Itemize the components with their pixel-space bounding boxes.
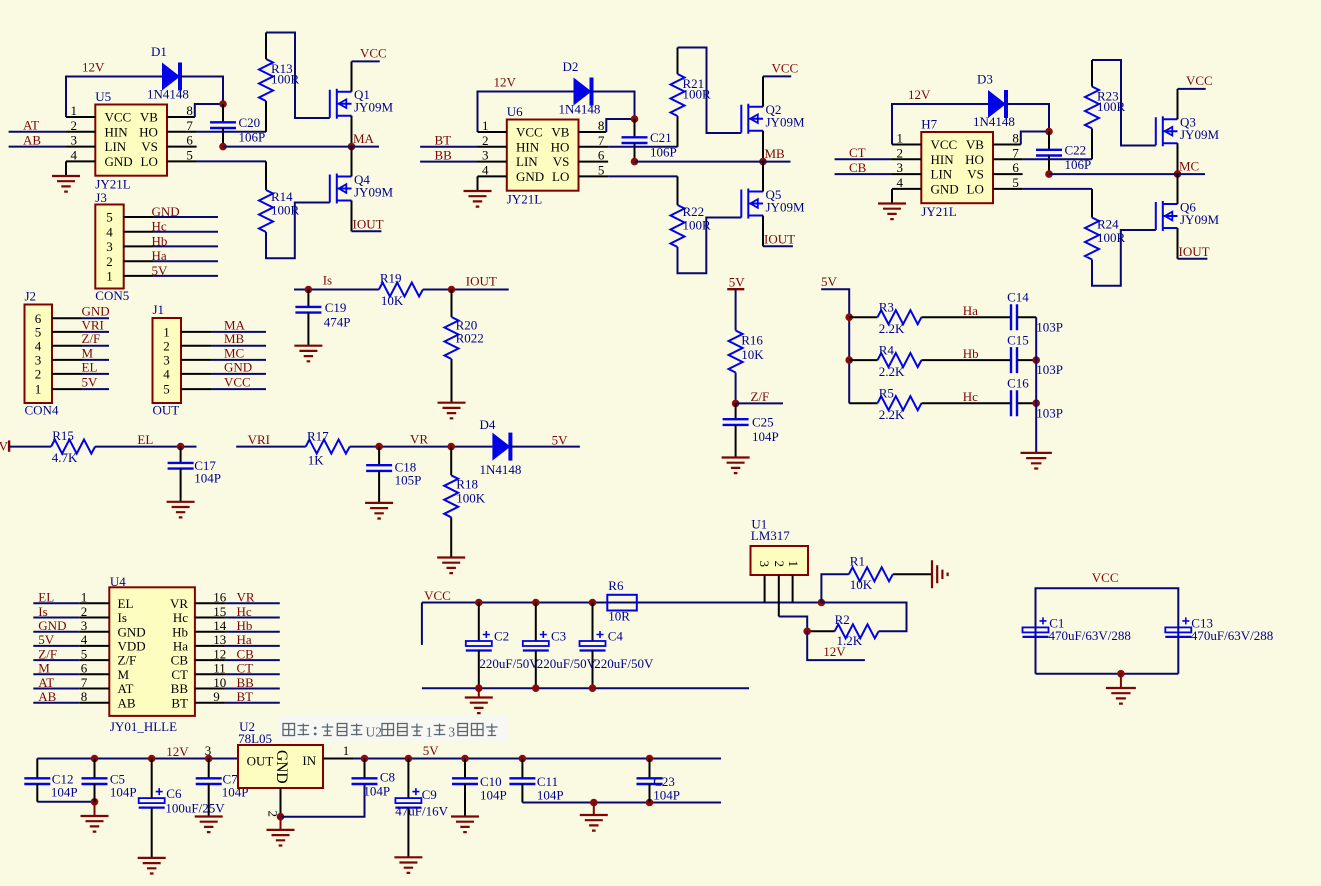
svg-text:JY09M: JY09M [1180,212,1219,227]
svg-text:GND: GND [38,618,66,633]
svg-text:220uF/50V: 220uF/50V [537,656,597,671]
svg-text:MA: MA [353,131,375,146]
wire HO to R21 [608,146,677,148]
svg-text:1: 1 [343,743,350,758]
gate driver U6 JY21L [507,104,579,207]
capacitor C5 104P [82,759,137,802]
svg-text:Z/F: Z/F [82,331,101,346]
svg-text:VDD: VDD [118,639,146,654]
svg-text:Hc: Hc [237,604,252,619]
wire source of Q1 to node MA [351,116,353,147]
junction [475,684,483,692]
svg-text:HO: HO [139,124,158,139]
power port 5V above R16 [727,288,744,290]
capacitor C13 470uF/63V/288 [1165,615,1273,643]
svg-text:5: 5 [106,210,113,225]
svg-text:GND: GND [516,169,544,184]
capacitor C25 104P [723,403,779,457]
svg-text:VCC: VCC [1186,73,1213,88]
wire 12V net of U6 [478,92,574,133]
wire [735,289,737,330]
junction [845,313,853,321]
svg-text:C8: C8 [380,770,395,785]
svg-text:MC: MC [224,345,244,360]
wire VB to junction [195,104,223,117]
junction [219,100,227,108]
wire VCC from J1 [211,388,266,390]
junction [91,755,99,763]
svg-text:5V: 5V [82,375,99,390]
svg-text:C3: C3 [551,629,566,644]
svg-text:VR: VR [170,596,188,611]
svg-text:HO: HO [551,139,570,154]
ground [1021,453,1052,469]
wire Hc from J3 [154,231,218,233]
svg-text:JY21L: JY21L [507,192,542,207]
svg-text:IOUT: IOUT [1179,244,1210,259]
svg-text:CB: CB [237,646,255,661]
svg-text:IOUT: IOUT [764,232,795,247]
svg-text:U6: U6 [507,104,523,119]
resistor R15 4.7K [51,428,95,465]
svg-text:Hc: Hc [173,610,188,625]
svg-text:6: 6 [598,148,605,163]
wire [1017,402,1036,404]
svg-text:GND: GND [105,154,133,169]
wire Z/F from J2 [82,345,109,347]
capacitor C2 220uF/50V [466,603,509,689]
ground [478,688,480,697]
resistor R4 2.2K [878,342,922,379]
junction [589,599,597,607]
wire MC from J1 [211,359,266,361]
svg-text:Ha: Ha [237,632,252,647]
wire GND to U4 [33,631,79,633]
resistor R19 10K [379,270,423,308]
svg-text:7: 7 [598,133,605,148]
pins of U2 [281,759,354,817]
wire MA from J1 [211,331,266,333]
transistor Q6 JY09M [1156,200,1220,232]
junction [405,755,413,763]
svg-text:Z/F: Z/F [118,653,137,668]
svg-text:MB: MB [224,331,245,346]
resistor R24 100R [1085,189,1126,260]
svg-text:VB: VB [966,137,984,152]
junction [532,684,540,692]
capacitor C20 106P [210,104,265,147]
connector J3 CON5 [95,190,129,303]
ground [593,803,595,816]
svg-text:BB: BB [237,675,255,690]
svg-text:3: 3 [71,133,78,148]
junction [205,755,213,763]
ground at U5 pin 4 [65,161,67,176]
svg-text:VCC: VCC [105,110,132,125]
svg-text:CB: CB [849,160,867,175]
junction [590,799,598,807]
svg-text:CT: CT [849,145,866,160]
pins of J1 [181,332,211,389]
wire CB from U4 [225,659,280,661]
resistor R3 2.2K [878,300,922,337]
svg-text:5V: 5V [423,743,440,758]
svg-text:2: 2 [772,561,787,568]
svg-text:VCC: VCC [931,137,958,152]
svg-text:R022: R022 [456,331,484,346]
svg-text:4: 4 [482,162,489,177]
wire R1 to ground [893,573,932,575]
pins of H7 [892,145,1023,189]
pins of U6 [478,132,609,176]
resistor R6 10R [607,578,637,624]
wire HO to R13 [197,131,266,133]
connector J1 OUT [153,302,182,418]
wire Ha from U4 [225,645,280,647]
svg-text:104P: 104P [537,788,564,803]
wire EL from J2 [82,373,109,375]
wire VRI from J2 [82,331,109,333]
junction [1045,128,1053,136]
svg-text:J2: J2 [25,289,37,304]
svg-text:M: M [118,667,130,682]
svg-text:1N4148: 1N4148 [973,114,1015,129]
svg-text:D3: D3 [977,72,993,87]
wire drain of Q1 to VCC [351,61,353,91]
wire MB output [635,161,791,163]
svg-text:VCC: VCC [424,588,451,603]
junction [589,684,597,692]
wire GND from J2 [82,317,109,319]
svg-text:3: 3 [897,160,904,175]
wire drain of Q3 to VCC [1177,89,1179,119]
svg-text:HIN: HIN [931,152,955,167]
capacitor C11 104P [509,759,563,803]
svg-text:EL: EL [118,596,134,611]
ground [167,502,195,518]
svg-text:5: 5 [1012,175,1019,190]
svg-text:8: 8 [186,103,193,118]
svg-text:AT: AT [118,681,134,696]
junction [845,356,853,364]
svg-text:VS: VS [967,167,984,182]
pin numbers of U5 [71,103,194,162]
resistor R22 100R [671,176,712,247]
svg-text:MB: MB [765,146,786,161]
svg-text:VCC: VCC [224,375,251,390]
svg-text:EL: EL [38,590,54,605]
svg-text:GND: GND [273,750,290,784]
svg-text:2: 2 [163,338,170,353]
wire EL to U4 [33,602,79,604]
svg-text:12V: 12V [908,87,931,102]
capacitor C9 47uF/16V [395,759,448,858]
svg-text:3: 3 [106,239,113,254]
svg-text:R5: R5 [879,386,894,401]
ground [437,558,465,574]
ground [722,458,750,474]
svg-text:LO: LO [141,154,158,169]
capacitor C14 103P [1007,290,1063,335]
wire 5V from J3 [154,275,218,277]
junction [1032,356,1040,364]
resistor R18 100K [444,447,486,558]
svg-text:6: 6 [186,133,193,148]
wire VCC loop [1036,588,1179,673]
svg-text:Is: Is [118,610,127,625]
wire ground bus [522,802,721,804]
svg-text:7: 7 [1012,145,1019,160]
wire U2 GND to C8 [281,784,365,817]
wire Ha from J3 [154,260,218,262]
svg-text:D1: D1 [151,44,167,59]
wire source of Q3 to node MC [1177,143,1179,174]
ground [195,817,223,833]
svg-text:R15: R15 [52,428,74,443]
svg-text:7: 7 [186,118,193,133]
svg-text:8: 8 [598,118,605,133]
capacitor C12 104P [24,759,77,802]
svg-text:1: 1 [106,269,113,284]
svg-text:Hb: Hb [152,233,168,248]
svg-text:GND: GND [931,182,959,197]
svg-text:5V: 5V [729,275,746,290]
svg-text:10R: 10R [608,609,630,624]
svg-text:GND: GND [224,359,252,374]
wire node EL [95,446,196,448]
svg-text:Hb: Hb [237,618,253,633]
wire node Hb [922,359,1012,361]
capacitor C17 104P [168,447,221,502]
svg-text:OUT: OUT [247,754,274,769]
svg-text:JY21L: JY21L [921,204,956,219]
svg-text:VRI: VRI [248,432,270,447]
wire to 12V [807,631,865,660]
svg-text:VR: VR [237,590,255,605]
svg-text:AB: AB [38,689,56,704]
wire LO to R24 [1023,188,1092,190]
svg-text:AB: AB [118,695,136,710]
ground [1120,674,1122,688]
wire R22 loop to gate of Q5 [678,218,742,274]
svg-text:4: 4 [35,338,42,353]
capacitor C22 106P [1036,132,1091,175]
svg-text:EL: EL [82,359,98,374]
svg-text:1: 1 [482,118,489,133]
svg-text:HIN: HIN [516,139,540,154]
transistor Q1 JY09M [330,87,394,119]
diode D1 [147,44,189,102]
svg-text:VS: VS [553,154,570,169]
svg-text:3: 3 [163,353,170,368]
junction [519,755,527,763]
wire 12V net of H7 [892,104,988,145]
junction [305,286,313,294]
wire GND from J1 [211,373,266,375]
svg-text:5: 5 [35,325,42,340]
svg-text:2: 2 [71,118,78,133]
wire source of Q6 to IOUT [1177,228,1179,259]
regulator U2 78L05 [238,719,323,788]
wire R14 loop to gate of Q4 [266,203,330,259]
svg-text:J3: J3 [95,190,107,205]
wire ground bus [1035,317,1037,453]
svg-text:VCC: VCC [516,125,543,140]
note text about U2 pins [278,716,508,742]
svg-text:VR: VR [410,432,428,447]
svg-text:104P: 104P [752,429,779,444]
svg-text:1: 1 [897,131,904,146]
transistor Q3 JY09M [1156,115,1220,147]
svg-text:LIN: LIN [516,154,538,169]
transistor Q5 JY09M [741,187,805,219]
resistor R20 R022 [445,290,484,403]
junction [1117,670,1125,678]
svg-text:C20: C20 [239,115,261,130]
junction [475,599,483,607]
svg-text:C9: C9 [422,787,437,802]
wire node VRI [236,446,306,448]
junction [646,755,654,763]
ground [294,346,322,362]
wire AB input [9,146,66,148]
ground rotated [932,560,948,588]
svg-text:8: 8 [1012,131,1019,146]
junction [732,400,740,408]
svg-text:47uF/16V: 47uF/16V [395,804,448,819]
svg-text:78L05: 78L05 [238,731,272,746]
pin numbers of U4 [81,590,227,704]
svg-text:1: 1 [786,561,801,568]
wire 12V rail [37,758,238,760]
wire LO to R14 [197,160,266,162]
pin numbers of H7 [897,131,1020,190]
svg-text:4.7K: 4.7K [52,450,78,465]
svg-text:3: 3 [757,561,772,568]
svg-text:C25: C25 [752,415,774,430]
resistor R16 10K [729,331,765,373]
wire AT to U4 [33,688,79,690]
svg-text:Ha: Ha [963,303,978,318]
svg-text:2: 2 [897,145,904,160]
ground [451,817,479,833]
wire ground bus [37,801,94,803]
svg-text:2: 2 [35,367,42,382]
wire U1 pin 2 to R2 [779,617,807,632]
junction [91,798,99,806]
svg-text:GND: GND [152,204,180,219]
svg-text:BB: BB [171,681,189,696]
svg-text:MC: MC [1179,158,1199,173]
power port VCC [763,75,791,77]
pins of J2 [52,318,82,389]
wire R23 loop to gate of Q3 [1092,60,1156,146]
wire GND from J3 [154,216,218,218]
svg-text:VCC: VCC [772,61,799,76]
capacitor C4 220uF/50V [580,603,624,689]
power port 5V at left edge [8,440,10,451]
wire [807,630,834,632]
svg-text:1N4148: 1N4148 [480,462,522,477]
wire drain of Q4 to MA [351,147,353,177]
wire [180,77,223,105]
power port VCC [352,60,380,62]
capacitor C6 100uF/25V [139,759,226,858]
svg-text:JY09M: JY09M [354,100,393,115]
svg-text:5V: 5V [0,439,9,454]
junction [375,443,383,451]
wire 5V from J2 [82,388,109,390]
pins of J3 [124,217,154,276]
svg-text:R2: R2 [835,612,850,627]
svg-text:C4: C4 [608,629,624,644]
diode D2 [559,59,601,117]
svg-text:104P: 104P [480,788,507,803]
wire M to U4 [33,673,79,675]
label IOUT [763,245,793,247]
svg-text:VB: VB [140,110,158,125]
wire MC output [1049,173,1205,175]
svg-text:5: 5 [186,147,193,162]
svg-text:12V: 12V [823,644,846,659]
svg-text:104P: 104P [653,788,680,803]
svg-text:CB: CB [171,653,189,668]
wire CT from U4 [225,673,280,675]
ground [280,817,282,830]
svg-text:U4: U4 [110,574,126,589]
svg-text:3: 3 [205,743,212,758]
wire VB to junction [1021,132,1049,145]
svg-text:1: 1 [71,103,78,118]
svg-text:10K: 10K [381,293,404,308]
svg-text:Z/F: Z/F [38,646,57,661]
svg-text:JY09M: JY09M [766,115,805,130]
svg-text:Z/F: Z/F [751,389,770,404]
svg-text:M: M [82,345,94,360]
gate driver U5 JY21L [95,89,167,192]
svg-text:1: 1 [426,725,433,740]
wire [592,92,635,120]
svg-text:Ha: Ha [173,639,188,654]
wire to R4 [849,359,877,361]
svg-text:3: 3 [35,353,42,368]
gate driver H7 JY21L [921,117,993,220]
svg-text:Hb: Hb [963,346,979,361]
svg-text:IN: IN [302,753,316,768]
svg-text:5: 5 [163,382,170,397]
transistor Q2 JY09M [741,102,805,134]
svg-text:VS: VS [141,139,158,154]
connector J2 CON4 [25,289,59,418]
capacitor C19 474P [295,290,350,346]
svg-text:2: 2 [106,254,113,269]
svg-text:4: 4 [106,224,113,239]
svg-text:CT: CT [237,661,254,676]
wire source of Q4 to IOUT [351,201,353,232]
junction [1032,399,1040,407]
wire node Hc [922,402,1012,404]
capacitor C8 104P [352,759,396,799]
svg-text:2.2K: 2.2K [879,321,905,336]
pins of U4 [79,603,225,702]
wire AB to U4 [33,702,79,704]
junction [631,158,639,166]
node MC [1174,170,1182,178]
wire R21 loop to gate of Q2 [678,48,742,134]
svg-text:5V: 5V [552,433,569,448]
wire 5V rail [353,758,721,760]
svg-text:105P: 105P [395,472,422,487]
